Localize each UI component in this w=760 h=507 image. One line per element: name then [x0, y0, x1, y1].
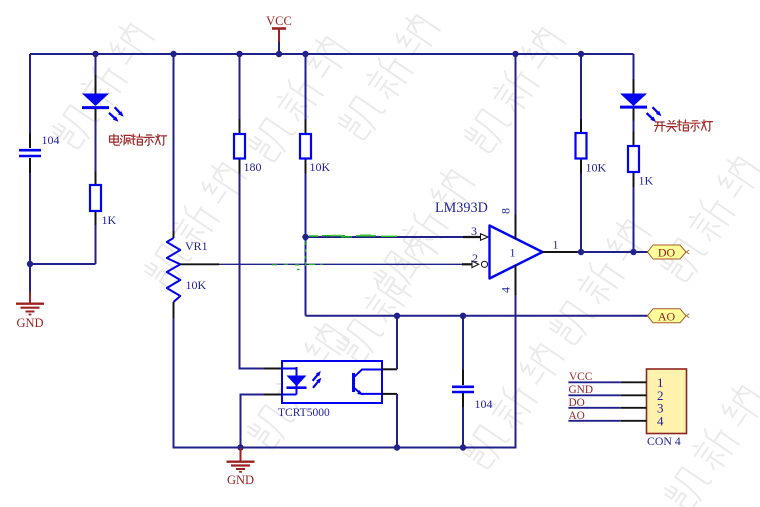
wire DO to J1-3	[568, 407, 620, 409]
node bottom-GND	[237, 444, 243, 450]
TCRT5000 emission arrows	[313, 371, 322, 388]
pin 2 lead	[462, 263, 472, 265]
wire VR1 column top	[173, 54, 175, 231]
wire VCC to J1-1	[568, 381, 620, 383]
op-amp U1 LM393D	[490, 226, 543, 279]
potentiometer VR1	[167, 238, 181, 302]
wire LED2 column top	[633, 54, 635, 79]
watermark 7	[371, 166, 476, 297]
node emitter-bottom	[394, 444, 400, 450]
resistor R4 10K	[576, 133, 587, 159]
wire R180 to TCRT anode	[240, 174, 265, 369]
svg-text:10K: 10K	[586, 161, 607, 175]
svg-text:DO: DO	[569, 397, 585, 409]
resistor R1 pins	[95, 172, 97, 226]
pin 2 input marker	[472, 261, 479, 268]
LED D2 pins	[633, 79, 635, 121]
svg-text:104: 104	[475, 397, 493, 411]
node C2-bottom	[460, 444, 466, 450]
capacitor C2 pins	[462, 370, 464, 407]
wire GND to J1-2	[568, 394, 620, 396]
node DO-1K	[630, 249, 636, 255]
node rail-pin8	[512, 51, 518, 57]
green highlight vertical	[297, 241, 306, 270]
wire R180 column top	[239, 54, 241, 119]
svg-text:10K: 10K	[310, 160, 331, 174]
svg-text:GND: GND	[569, 384, 593, 396]
svg-text:CON 4: CON 4	[647, 434, 681, 448]
pin J1-1 lead	[621, 381, 647, 383]
wire 1K bottom to left column	[30, 263, 96, 265]
TCRT5000 internal LED	[282, 367, 307, 395]
node AO-collector	[394, 313, 400, 319]
TCRT5000 phototransistor	[354, 370, 383, 396]
pin TCRT cathode	[264, 394, 282, 396]
svg-text:LM393D: LM393D	[435, 200, 488, 216]
node rail-R180	[236, 51, 242, 57]
watermark 4	[462, 24, 567, 155]
wire 10K-right column top	[580, 54, 582, 119]
wire LED1 to R1	[95, 121, 97, 172]
LED D1 pins	[95, 75, 97, 121]
wire R1 bottom	[95, 225, 97, 264]
wire VR1 bottom	[174, 318, 241, 448]
svg-text:2: 2	[472, 251, 478, 265]
LED D1	[82, 94, 124, 122]
connector J1 CON4	[647, 369, 687, 434]
wire emitter to bottom rail	[396, 394, 398, 448]
wire LED2 to R5	[633, 121, 635, 132]
svg-text:VCC: VCC	[569, 371, 592, 383]
node DO-10K	[578, 249, 584, 255]
watermark 6	[142, 159, 247, 290]
pin J1-4 lead	[621, 420, 647, 422]
green highlight on pin3 wire	[309, 235, 397, 237]
watermark 1	[50, 20, 155, 151]
resistor R3 10K	[300, 134, 311, 159]
wire C2 bottom	[462, 407, 464, 448]
potentiometer VR1 pins	[173, 231, 175, 318]
resistor R4 pins	[580, 119, 582, 174]
pin J1-2 lead	[621, 394, 647, 396]
svg-text:TCRT5000: TCRT5000	[278, 407, 330, 419]
wire R5 bottom	[633, 187, 635, 252]
wire VR1 wiper to pin2	[219, 263, 462, 265]
svg-text:3: 3	[471, 224, 477, 238]
pin 2 inverting bubble	[481, 261, 487, 267]
node AO-C2	[460, 313, 466, 319]
pin TCRT anode	[264, 368, 282, 370]
resistor R5 pins	[633, 132, 635, 188]
pin 3 lead	[463, 236, 481, 238]
svg-text:VR1: VR1	[185, 239, 208, 253]
port flag AO	[648, 309, 690, 324]
wire C2 top	[462, 316, 464, 370]
resistor R3 pins	[305, 119, 307, 174]
wire left column lower	[29, 173, 31, 292]
pin J1-3 lead	[621, 407, 647, 409]
svg-text:104: 104	[42, 133, 60, 147]
resistor R2 180	[234, 134, 245, 159]
pin 3 input marker	[481, 234, 489, 241]
wire TCRT cathode to GND	[241, 395, 265, 448]
wire LED1 column top	[95, 54, 97, 75]
wire R4 bottom	[580, 174, 582, 253]
watermark 3	[336, 11, 441, 142]
LED D2	[620, 94, 662, 123]
ground GND2	[227, 448, 255, 488]
wire pin 4 to bottom rail	[463, 295, 516, 448]
svg-text:GND: GND	[227, 473, 254, 487]
wire pin 8 to rail	[515, 54, 517, 215]
node rail-LED1	[92, 51, 98, 57]
ground GND1	[16, 292, 44, 331]
wire bottom rail	[241, 447, 464, 449]
node rail-VR1	[170, 51, 176, 57]
pin 4 lead	[515, 266, 517, 296]
node pin3 tap	[302, 234, 308, 240]
svg-text:1: 1	[510, 246, 516, 260]
watermark 10	[245, 320, 350, 451]
power port VCC	[266, 14, 292, 42]
pin TCRT emitter	[382, 393, 397, 395]
pin 8 lead	[515, 215, 517, 240]
capacitor C2	[452, 387, 474, 392]
watermark 11	[460, 340, 565, 471]
svg-text:GND: GND	[16, 316, 43, 330]
label power-indicator (Chinese)	[110, 134, 167, 145]
capacitor C1	[19, 150, 41, 156]
svg-text:1: 1	[553, 238, 559, 252]
pin TCRT collector	[382, 368, 397, 370]
capacitor C1 pins	[29, 134, 31, 174]
wire AO to J1-4	[568, 420, 620, 422]
svg-text:DO: DO	[658, 246, 676, 260]
watermark 9	[547, 216, 652, 347]
node rail-10K	[302, 51, 308, 57]
svg-text:4: 4	[657, 414, 664, 429]
wire into pin 3	[306, 236, 464, 238]
watermark 13	[334, 234, 439, 365]
node rail-10Kright	[578, 51, 584, 57]
label switch-indicator (Chinese)	[654, 120, 712, 131]
svg-text:10K: 10K	[186, 278, 207, 292]
port flag DO	[648, 245, 690, 260]
svg-text:1K: 1K	[639, 174, 654, 188]
watermark 8	[658, 153, 760, 284]
svg-text:180: 180	[244, 160, 262, 174]
wire collector to AO	[396, 316, 398, 370]
resistor R5 1K	[628, 146, 639, 172]
resistor R1 1K	[90, 185, 101, 211]
wire top rail	[30, 53, 634, 55]
wire DO net	[577, 251, 648, 253]
svg-text:8: 8	[499, 208, 513, 214]
optocoupler U2 TCRT5000 box	[282, 361, 382, 403]
svg-text:1K: 1K	[102, 213, 117, 227]
watermark 12	[662, 382, 760, 507]
svg-text:VCC: VCC	[266, 14, 292, 28]
wire AO net	[306, 315, 648, 317]
wire left column upper	[29, 54, 31, 134]
wire 10K-left down to AO corner	[305, 174, 307, 316]
wire VR1 wiper black	[180, 263, 219, 265]
node left-1K	[27, 261, 33, 267]
node rail-VCC	[276, 51, 282, 57]
svg-text:AO: AO	[658, 309, 676, 323]
watermark 2	[246, 33, 351, 164]
wire 10K-left column top	[305, 54, 307, 119]
resistor R180 pins	[239, 119, 241, 174]
green highlight on wiper wire	[272, 263, 323, 266]
svg-text:AO: AO	[569, 410, 585, 422]
wire VCC stub	[278, 42, 280, 53]
svg-text:4: 4	[499, 287, 513, 293]
pin 1 output lead	[543, 251, 578, 253]
